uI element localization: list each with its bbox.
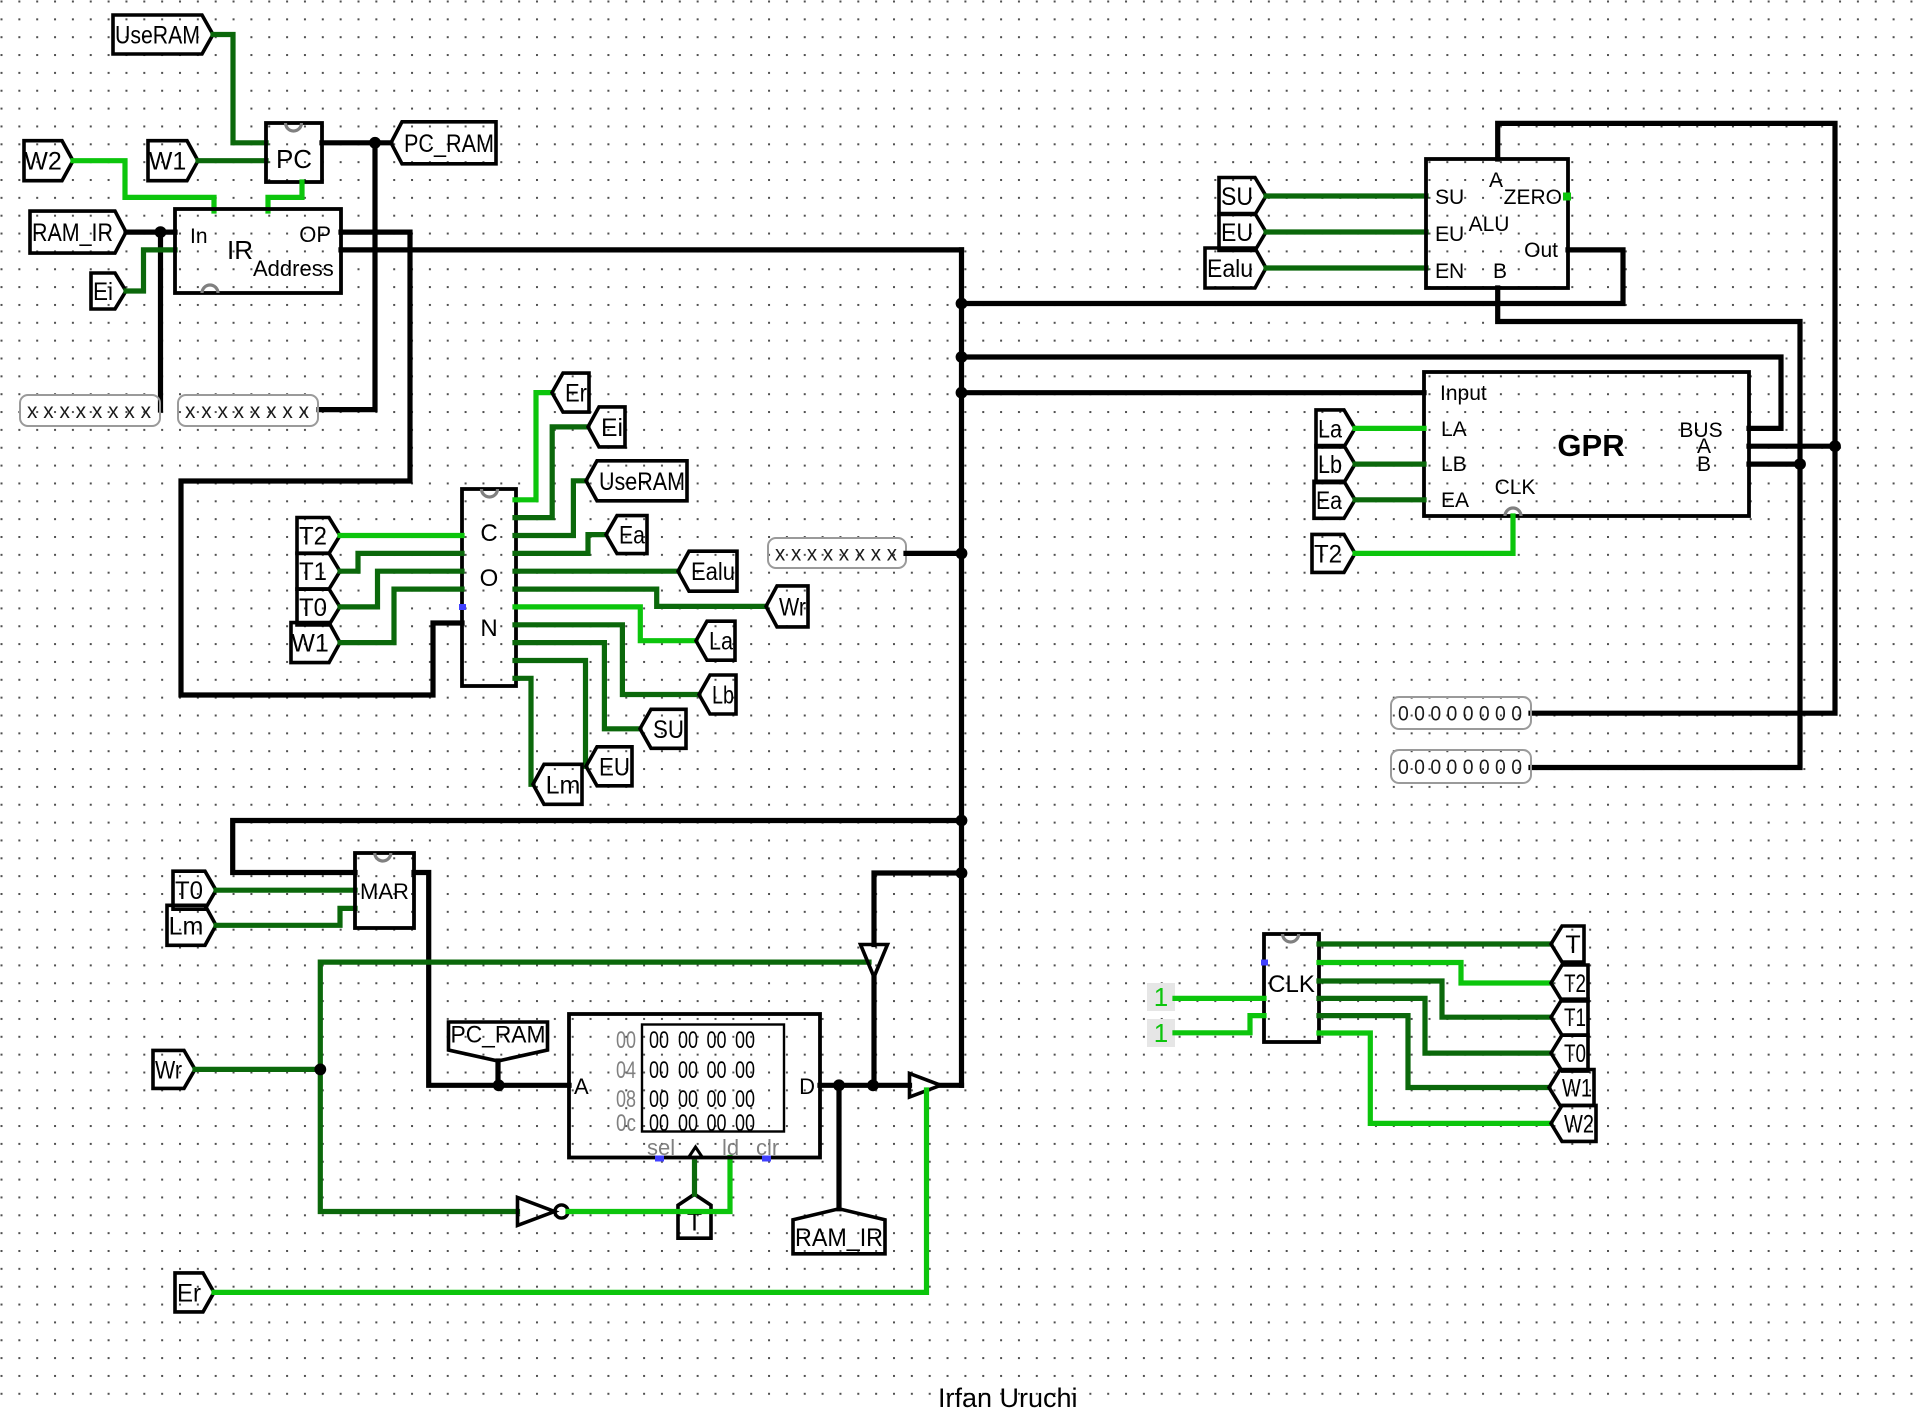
wire CON out 2 to Ei [515,427,588,518]
svg-text:00: 00 [735,1027,755,1054]
svg-text:Wr: Wr [779,593,806,621]
bus D junction down to RAM_IR tunnel [836,1085,841,1209]
floating pin marker on CLK [1261,960,1268,966]
probe display 2 (IR OP value) [178,395,318,426]
svg-text:00: 00 [649,1027,669,1054]
svg-text:Er: Er [177,1279,201,1307]
svg-text:EU: EU [1221,219,1253,247]
svg-text:OP: OP [299,222,331,247]
svg-text:W1: W1 [291,630,329,658]
svg-text:PC: PC [276,144,312,174]
tunnel W2 (CLK output) [1551,1105,1596,1141]
clock notch of IR [202,285,218,293]
wire Er to read buffer enable [214,1090,927,1292]
bus branch to ALU Out [962,250,1624,304]
svg-text:UseRAM: UseRAM [115,22,200,50]
svg-text:00: 00 [678,1110,698,1137]
svg-text:00: 00 [735,1110,755,1137]
wire CON out 11 to Lm [515,678,533,784]
junction GPR A / ALU A bus [1829,440,1841,452]
tunnel UseRAM (CON output) [586,461,687,501]
tunnel Lb (CON output) [699,675,736,714]
svg-text:RAM_IR: RAM_IR [795,1224,883,1252]
tunnel T1 (CLK output) [1551,999,1588,1035]
svg-text:x x x x x x x x: x x x x x x x x [27,400,151,423]
svg-text:00: 00 [678,1086,698,1113]
svg-text:UseRAM: UseRAM [599,468,685,496]
wire constant 2 to CLK [1175,1016,1264,1033]
wire T to RAM clock [692,1162,697,1194]
wire CON out 1 to Er [515,393,552,500]
svg-text:In: In [190,225,208,248]
tunnel PC_RAM (top) [391,122,496,164]
svg-text:Lm: Lm [546,771,581,799]
wire PC_RAM tunnel drop to A bus [495,1061,500,1085]
clock notch of GPR [1505,508,1521,516]
junction main bus / GPR BUS branch [956,351,968,363]
junction main bus / GPR Input branch [956,387,968,399]
svg-text:1: 1 [1154,982,1168,1012]
svg-text:IR: IR [227,235,253,265]
svg-text:00: 00 [649,1057,669,1084]
tunnel EU (ALU input) [1219,214,1266,251]
junction Wr wire [314,1064,326,1076]
tunnel T1 (CON input) [297,553,340,589]
svg-text:W1: W1 [1562,1075,1592,1103]
svg-text:SU: SU [1221,183,1253,211]
tunnel Ea (CON output) [606,516,647,554]
tunnel Ei (CON output) [588,407,625,447]
bus RAM D output [820,1083,910,1088]
tunnel T2 (GPR clock) [1312,534,1355,572]
svg-text:Lm: Lm [169,912,204,940]
ALU U1 [1426,159,1568,288]
clock generator CLK [1264,934,1319,1042]
svg-text:GPR: GPR [1557,428,1624,463]
tunnel T2 (CON input) [297,518,340,554]
svg-text:Er: Er [565,380,587,408]
tri-state write buffer Q1 (down) [861,945,888,978]
svg-text:Address: Address [253,256,334,281]
svg-text:EN: EN [1435,260,1464,283]
wire Ealu to ALU EN [1266,265,1426,270]
probe display 4 (GPR A) [1391,697,1531,729]
wire Wr to junction [195,1067,320,1072]
wire W1 to CON [340,589,462,643]
bus IR Address output to main bus [341,247,962,252]
wire CON out 9 to SU [515,643,640,729]
junction D bus / write buffer [867,1079,879,1091]
svg-text:00: 00 [707,1086,727,1113]
svg-text:x x x x x x x x: x x x x x x x x [775,543,897,566]
svg-text:ld: ld [722,1135,739,1160]
svg-text:MAR: MAR [360,879,409,904]
wire SU to ALU [1266,193,1426,198]
svg-text:O: O [480,565,499,592]
tunnel RAM_IR (left) [30,211,126,253]
wire T1 to CON [340,553,462,571]
tunnel SU (CON output) [640,709,686,748]
wire Lb to GPR LB [1355,462,1424,467]
wire Ei to IR enable [126,250,175,291]
wire CON out 6 to Wr [515,589,766,606]
svg-text:00: 00 [735,1086,755,1113]
bus branch to write buffer [874,873,962,945]
wire T2 to GPR clock [1355,516,1513,553]
svg-text:Ei: Ei [93,278,113,306]
svg-text:RAM_IR: RAM_IR [32,219,113,247]
svg-text:SU: SU [1435,186,1464,209]
tunnel La (GPR input) [1316,410,1355,447]
tunnel W1 (CON input) [291,623,340,663]
svg-text:T2: T2 [1564,970,1586,998]
svg-text:08: 08 [616,1086,636,1113]
wire CLK out T0 [1319,998,1551,1053]
svg-text:00: 00 [707,1057,727,1084]
svg-text:Ealu: Ealu [1207,255,1253,283]
wire Wr junction up to write buffer enable [320,962,869,1069]
svg-text:LB: LB [1441,453,1467,476]
svg-text:0 0 0 0 0 0 0 0: 0 0 0 0 0 0 0 0 [1398,756,1522,779]
clock notch of MAR [375,853,391,861]
tunnel Wr (left) [153,1050,195,1088]
tunnel Er (CON output) [552,373,589,412]
svg-text:T0: T0 [175,877,203,905]
tunnel Er (bottom-left) [175,1273,214,1312]
svg-text:Ea: Ea [1316,487,1342,515]
tunnel Wr (CON output) [766,586,808,627]
wire CON out 4 to Ea [515,535,606,554]
bus GPR A output [1749,444,1835,449]
constant 1 (lower) [1147,1018,1175,1048]
bus RAM_IR to IR In [126,230,175,235]
svg-text:Ealu: Ealu [691,558,735,586]
svg-text:C: C [480,520,497,547]
probe display 5 (GPR B) [1391,750,1531,783]
svg-text:T0: T0 [1564,1040,1586,1068]
tunnel Ea (GPR input) [1314,481,1355,518]
wire CLK out T [1319,941,1551,946]
svg-text:N: N [480,615,497,642]
svg-text:PC_RAM: PC_RAM [404,130,494,158]
svg-text:T2: T2 [299,523,327,551]
RAM clr pin marker [762,1156,771,1162]
tunnel Lb (GPR input) [1316,446,1355,483]
bus MAR output to RAM A [414,873,569,1086]
svg-text:PC_RAM: PC_RAM [451,1022,546,1049]
clock notch of CLK [1283,934,1299,942]
wire W1 to PC clock input [198,158,266,163]
wire CON out 8 to Lb [515,625,699,695]
ZERO output pin marker [1563,193,1571,201]
junction main bus / probe 3 [956,548,968,560]
tunnel T0 (MAR clock) [173,871,216,909]
bus read buffer output to main bus [941,1083,962,1088]
svg-text:00: 00 [707,1110,727,1137]
svg-text:00: 00 [616,1027,636,1054]
tunnel UseRAM (source, top-left) [113,15,213,54]
wire PC output to PC_RAM tunnel [322,140,391,145]
svg-text:B: B [1697,453,1711,476]
svg-text:B: B [1493,260,1507,283]
clock notch of CON [482,489,498,497]
junction main bus / write buffer branch [956,867,968,879]
junction RAM_IR / IR In [155,226,167,238]
register file GPR [1424,372,1749,516]
tunnel W1 (CLK output) [1549,1070,1594,1106]
tunnel T (CLK output) [1551,926,1584,962]
wire PC count output to IR clock [268,182,302,211]
tunnel RAM_IR (below RAM) [793,1209,885,1254]
tunnel T2 (CLK output) [1551,965,1588,1001]
wire Wr junction down to NOT gate [320,1069,517,1211]
svg-text:0c: 0c [616,1110,636,1137]
clock notch of PC [286,123,302,131]
constant 1 (upper) [1147,982,1175,1012]
register MAR [355,853,414,928]
wire CON out 10 to EU [515,661,586,767]
RAM clock wedge [689,1147,703,1158]
NOT gate U2 [518,1198,569,1226]
svg-text:LA: LA [1441,418,1467,441]
svg-text:Irfan Uruchi: Irfan Uruchi [938,1383,1078,1409]
svg-text:CLK: CLK [1495,476,1536,499]
junction GPR B / ALU B bus [1794,458,1806,470]
tunnel W1 (top-left) [148,141,198,181]
wire T0 to CON [340,571,462,607]
wire NOT output to RAM ld [568,1158,730,1212]
RAM 16x8 [569,1014,820,1160]
wire CON out 3 to UseRAM [515,481,586,536]
svg-text:La: La [709,628,733,656]
bus branch to MAR input [233,821,962,873]
RAM sel pin marker [655,1156,664,1162]
register IR [175,209,341,293]
wire CON out 5 to Ealu [515,569,678,574]
tunnel EU (CON output) [586,747,632,786]
svg-text:W2: W2 [1564,1110,1594,1138]
svg-text:Ei: Ei [601,414,623,442]
wire W2 to IR write input [73,161,214,211]
svg-text:A: A [574,1074,589,1099]
svg-text:T2: T2 [1314,540,1342,568]
tunnel SU (ALU input) [1219,178,1266,215]
svg-text:ZERO: ZERO [1504,186,1562,209]
wire T0 to MAR [216,888,355,893]
svg-text:SU: SU [653,716,684,744]
junction D bus / RAM_IR [833,1079,845,1091]
svg-text:A: A [1489,169,1503,192]
svg-text:00: 00 [678,1027,698,1054]
svg-text:Lb: Lb [712,682,734,710]
svg-text:Input: Input [1440,382,1487,405]
svg-text:CLK: CLK [1268,971,1315,998]
svg-text:1: 1 [1154,1018,1168,1048]
probe display 3 (bus value) [768,538,906,568]
bus PC_RAM junction down to probe 2 [319,143,375,410]
controller CON [462,489,516,686]
tunnel Ealu (ALU input) [1205,248,1266,288]
svg-text:EA: EA [1441,489,1469,512]
wire Lm to MAR [216,908,355,925]
bus GPR B output [1749,462,1800,467]
wire CON out 7 to La [515,607,696,641]
svg-text:Wr: Wr [155,1056,182,1084]
junction main bus / ALU Out branch [956,298,968,310]
tunnel T0 (CLK output) [1551,1035,1588,1071]
register PC [266,123,322,182]
svg-text:00: 00 [649,1086,669,1113]
bus IR OP output to CON input (loop) [181,232,462,695]
svg-text:La: La [1318,415,1342,443]
svg-text:W2: W2 [24,148,62,176]
probe display 1 (IR In value) [20,395,160,426]
wire La to GPR LA [1355,426,1424,431]
svg-text:ALU: ALU [1469,213,1510,236]
svg-text:0 0 0 0 0 0 0 0: 0 0 0 0 0 0 0 0 [1398,703,1522,726]
main vertical bus [959,250,964,1085]
wire CLK out T1 [1319,981,1551,1017]
bus probe 3 to main bus [906,551,962,556]
junction main bus / MAR branch [956,815,968,827]
svg-text:00: 00 [735,1057,755,1084]
svg-text:T1: T1 [299,558,327,586]
wire T2 to CON [340,533,462,538]
svg-text:Ea: Ea [619,522,645,550]
wire CLK out W2 [1319,1033,1551,1123]
tunnel Lm (CON output) [533,764,582,804]
bus junction to probe 1 [158,232,163,410]
wire constant 1 to CLK [1175,996,1264,1001]
wire CLK out T2 [1319,963,1551,984]
bus branch to GPR BUS pin [962,357,1782,428]
tunnel Ei (left) [91,273,126,309]
svg-text:T0: T0 [299,594,327,622]
bus write buffer output to D bus [871,977,876,1085]
floating pin marker on CON [459,604,466,610]
bus ALU A input loop [1498,123,1835,713]
tunnel PC_RAM (RAM address) [449,1022,548,1061]
bus branch to GPR Input pin [962,390,1425,395]
author signature [938,1383,1078,1409]
svg-text:Out: Out [1524,239,1558,262]
svg-text:T: T [1565,931,1580,959]
svg-text:x x x x x x x x: x x x x x x x x [185,400,309,423]
tunnel La (CON output) [696,621,735,660]
svg-text:Lb: Lb [1318,451,1342,479]
junction PC output / PC_RAM [369,137,381,149]
svg-text:EU: EU [1435,223,1464,246]
wire Ea to GPR EA [1355,497,1424,502]
svg-text:W1: W1 [149,148,187,176]
tunnel T0 (CON input) [297,589,340,625]
wire UseRAM to PC input [213,35,266,143]
bus ALU B input loop [1498,288,1800,768]
svg-text:EU: EU [599,753,630,781]
tunnel W2 (top-left) [24,141,73,181]
wire EU to ALU [1266,229,1426,234]
svg-text:T1: T1 [1564,1004,1586,1032]
tunnel Ealu (CON output) [678,551,737,591]
tunnel T (RAM clock) [678,1194,711,1238]
svg-text:00: 00 [649,1110,669,1137]
svg-text:00: 00 [678,1057,698,1084]
tunnel Lm (MAR load) [167,905,216,945]
svg-text:D: D [799,1074,815,1099]
junction PC_RAM / RAM A bus [493,1079,505,1091]
svg-text:04: 04 [616,1057,636,1084]
tri-state read buffer Q2 (right) [910,1074,941,1098]
wire CLK out W1 [1319,1016,1549,1088]
svg-text:00: 00 [707,1027,727,1054]
